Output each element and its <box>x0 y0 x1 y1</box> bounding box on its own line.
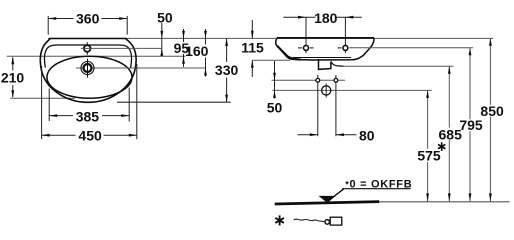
dimension 685 line <box>448 66 450 201</box>
drain hole center line (575 ref) <box>272 89 431 91</box>
fixing hole extension lines (80 dim) <box>317 75 319 136</box>
dimension 210 <box>12 58 14 98</box>
leader line A basin top edge extended <box>48 37 493 39</box>
dowel ring <box>325 220 330 225</box>
washbasin top view bowl outline <box>47 56 132 98</box>
dimension 450 <box>42 64 137 139</box>
dimension 180 <box>283 16 362 18</box>
dimension 360 <box>48 16 127 35</box>
dimension 850 line <box>489 38 491 201</box>
front view inner bottom line <box>293 57 351 59</box>
asterisk note bottom <box>275 215 284 225</box>
dimension 575 line <box>427 90 429 201</box>
tap hole top view <box>84 42 91 55</box>
screw thread squiggle <box>294 219 324 221</box>
svg-text:210: 210 <box>1 70 25 86</box>
dimension 95 <box>183 29 185 67</box>
svg-text:330: 330 <box>215 62 239 78</box>
tap hole leader line to 795 <box>349 47 473 49</box>
leader line C bowl front edge extended <box>7 55 186 57</box>
tap hole right front view <box>343 45 348 50</box>
tap hole left front view <box>304 45 309 50</box>
asterisk note at 685 <box>438 142 445 151</box>
svg-text:360: 360 <box>76 11 100 27</box>
drain leader line <box>76 67 206 69</box>
datum triangle <box>319 196 336 203</box>
dimension 160 <box>205 29 207 77</box>
washbasin top view outer outline <box>40 39 136 103</box>
washbasin front view top edge <box>277 37 374 39</box>
front view bottom ext line (115 ref) <box>252 59 290 61</box>
svg-text:575: 575 <box>417 148 441 164</box>
front view right foot arc <box>351 53 366 60</box>
tap hole leader line <box>81 47 162 49</box>
fixing hole right <box>334 78 338 82</box>
svg-text:450: 450 <box>78 128 102 144</box>
datum text underline <box>342 188 411 190</box>
leader line bowl rear tangent (210 bottom ref) <box>10 97 75 99</box>
dimension 330 <box>226 38 228 102</box>
svg-text:50: 50 <box>157 9 173 25</box>
dimension 115 <box>251 20 253 77</box>
tap hole extension lines (180 dim) <box>305 17 307 53</box>
dimension 50 top view <box>161 23 163 56</box>
dimension 385 <box>49 88 129 122</box>
svg-text:115: 115 <box>241 40 264 56</box>
svg-text:80: 80 <box>359 128 375 144</box>
dimension 795 line <box>469 48 471 202</box>
dimension 50 front view <box>274 61 276 99</box>
siphon outline <box>331 62 344 67</box>
svg-text:385: 385 <box>76 109 100 125</box>
datum leader diagonal <box>334 189 344 196</box>
dowel box <box>330 217 342 225</box>
fixing hole left <box>316 78 320 82</box>
svg-text:50: 50 <box>267 100 283 116</box>
svg-text:795: 795 <box>459 117 483 133</box>
front view left foot inner line <box>277 46 300 60</box>
leader line siphon bottom (685 ref) <box>344 65 454 67</box>
leader line outer bottom tangent (330 bottom ref) <box>117 101 231 103</box>
svg-text:180: 180 <box>314 10 338 26</box>
fixing holes center line <box>272 79 346 81</box>
drain outlet hole <box>322 86 331 95</box>
drain box front view <box>319 59 331 69</box>
washbasin front view hull <box>276 38 374 60</box>
svg-text:160: 160 <box>185 43 209 59</box>
drain fitting top view <box>81 59 94 78</box>
svg-text:850: 850 <box>480 103 504 119</box>
washbasin top view rim inner edge <box>45 45 132 68</box>
floor line thin <box>379 201 510 203</box>
floor line thick <box>275 202 380 204</box>
svg-text:*0 = OKFFB: *0 = OKFFB <box>345 178 412 190</box>
dimension 80 <box>298 134 357 136</box>
